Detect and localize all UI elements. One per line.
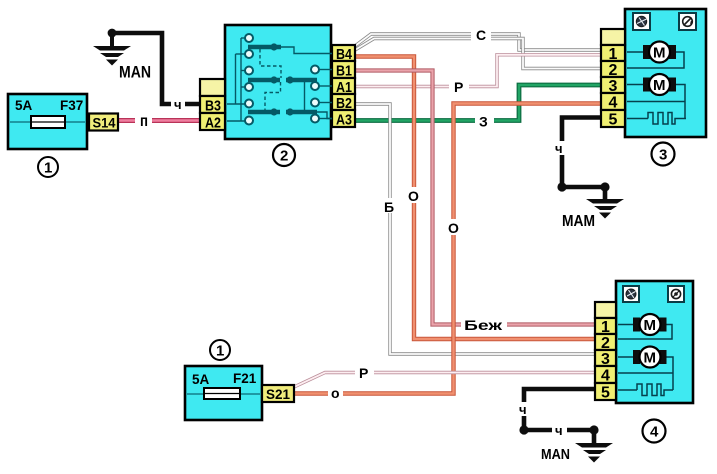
svg-text:5: 5 <box>601 385 610 402</box>
resistor square wave X4 <box>637 384 673 396</box>
ground MAN top-left <box>93 29 151 82</box>
wiper bar 1 <box>248 45 281 49</box>
svg-text:F21: F21 <box>233 371 257 386</box>
label O on B4 wire <box>405 187 423 204</box>
svg-text:M: M <box>653 77 666 94</box>
icon washer left X4 <box>623 286 639 302</box>
wire green Z (A3 to X3 pin3) <box>355 85 601 121</box>
pin (blank) left <box>200 79 225 96</box>
pin (blank) <box>595 302 616 318</box>
wire pin4 row <box>627 101 685 103</box>
icon washer left X3 <box>633 13 650 30</box>
switch internals <box>227 34 332 125</box>
wire M2 right drop X4 <box>666 357 673 390</box>
label ch on MAM wire <box>554 141 568 156</box>
svg-text:Б: Б <box>384 199 394 215</box>
wire black (MAN ground to B3) <box>112 33 200 104</box>
svg-text:5A: 5A <box>192 372 210 387</box>
wiper bar 2 right <box>286 78 317 82</box>
ground MAN bottom-right <box>519 425 613 463</box>
label P top <box>449 79 469 95</box>
fuse element F37 <box>31 116 65 128</box>
switch unit box <box>225 25 331 139</box>
callout 2 <box>273 144 295 166</box>
unit box X4 <box>616 281 693 403</box>
svg-text:о: о <box>331 385 340 401</box>
wire pin5 to resistor <box>627 118 648 120</box>
linkage dashed 1 <box>260 49 281 78</box>
wire internal left bus <box>240 38 242 121</box>
pin 3 <box>601 77 625 93</box>
label ch near B3 <box>171 97 185 112</box>
wire pin3 to M2 X4 <box>618 356 634 358</box>
fuse box F21 <box>185 366 262 420</box>
wire black (X3 pin5 to MAM ground) <box>562 118 605 200</box>
svg-text:1: 1 <box>44 160 52 177</box>
label O on S21 riser <box>445 219 463 236</box>
wire r2 stub to A1 <box>319 85 332 87</box>
svg-text:M: M <box>653 45 666 62</box>
svg-text:Р: Р <box>454 79 463 95</box>
svg-text:ч: ч <box>174 97 182 112</box>
motor M1 X4 <box>633 314 667 335</box>
wire orange O2 (S21 to X3 pin4) <box>293 104 601 394</box>
wire pin1 to M1 X4 <box>618 324 634 326</box>
wire r4 stub to A3 <box>319 118 332 120</box>
splice S21 <box>262 385 294 402</box>
svg-text:3: 3 <box>659 147 667 164</box>
pin 5 <box>601 110 625 127</box>
label C <box>471 27 491 43</box>
label Bezh <box>461 317 507 333</box>
wire r1 stub to B1 <box>319 69 332 71</box>
label B on white wire <box>382 198 398 215</box>
pin 3 <box>595 350 616 366</box>
wire pin1 to M1 <box>627 51 644 53</box>
pin (blank) <box>601 29 625 45</box>
linkage dashed 2 <box>265 82 281 110</box>
svg-text:Р: Р <box>359 365 368 381</box>
motor M1 X3 <box>643 42 676 63</box>
pin 2 <box>601 61 625 77</box>
svg-text:ч: ч <box>519 402 527 417</box>
fuse box F37 <box>8 94 87 149</box>
callout 1 (top fuse) <box>38 157 58 177</box>
resistor square wave X3 <box>648 113 686 125</box>
callout 4 <box>643 420 666 443</box>
svg-text:M: M <box>644 350 657 367</box>
contact circles right <box>311 66 319 74</box>
pin B2 <box>332 94 355 110</box>
pin A1 <box>332 78 355 94</box>
pin B3 <box>200 96 225 113</box>
callout 1 (bottom fuse) <box>210 340 230 360</box>
wire pin3 to M2 <box>627 84 644 86</box>
svg-text:A3: A3 <box>336 112 352 129</box>
svg-text:О: О <box>408 188 419 204</box>
pin B1 <box>332 61 355 78</box>
svg-text:A2: A2 <box>205 115 221 132</box>
label P bottom <box>355 365 374 381</box>
pin 5 <box>595 383 616 400</box>
wire M2 right drop <box>675 85 685 119</box>
wire pin4 row X4 <box>618 372 673 374</box>
svg-text:4: 4 <box>650 424 659 441</box>
wire pin5 to resistor X4 <box>618 389 637 391</box>
svg-text:п: п <box>140 113 148 130</box>
pin 4 <box>601 93 625 110</box>
svg-text:5A: 5A <box>15 98 33 113</box>
pin B4 <box>332 45 355 61</box>
wire M1 to pin2 <box>627 52 684 68</box>
wire M1 to pin2 X4 <box>618 325 672 340</box>
wire grey C2 (B4 to X3 pin2) <box>355 39 601 69</box>
svg-text:F37: F37 <box>60 98 83 113</box>
wire black (X4 pin5 to MAN ground) <box>524 389 595 443</box>
pin 1 <box>601 45 625 61</box>
label o near S21 <box>328 385 343 401</box>
callout 3 <box>652 143 675 166</box>
unit box X3 <box>625 9 706 137</box>
splice S14 <box>89 114 118 131</box>
svg-text:2: 2 <box>280 148 288 165</box>
wire pink p (S14 to A2) <box>118 118 200 123</box>
wire pink P top (A1 to X3 pin1) <box>355 55 601 87</box>
wiper bar 3 left <box>248 110 280 114</box>
wiper bar 3 right <box>286 110 317 114</box>
svg-text:MAN: MAN <box>119 63 151 82</box>
pin 2 <box>595 334 616 350</box>
svg-text:О: О <box>448 220 459 236</box>
svg-text:ч: ч <box>555 141 563 156</box>
contact circles left <box>245 34 253 42</box>
fuse element F21 <box>204 388 240 399</box>
wiper bar 2 left <box>248 78 280 82</box>
svg-text:С: С <box>476 27 486 43</box>
svg-text:MAM: MAM <box>562 213 595 230</box>
svg-text:ч: ч <box>555 423 563 438</box>
svg-text:S21: S21 <box>266 386 290 402</box>
pin 1 <box>595 318 616 334</box>
wire bar3 tail to A3 <box>317 112 332 119</box>
wire r3 stub to B2 <box>319 102 332 104</box>
wire beige Bezh (B1 to X4 pin1) <box>355 71 595 325</box>
svg-text:MAN: MAN <box>541 446 570 463</box>
svg-text:M: M <box>644 317 657 334</box>
svg-text:S14: S14 <box>93 115 116 131</box>
svg-text:1: 1 <box>216 343 224 360</box>
ground MAM right-middle <box>557 182 624 230</box>
pin A2 <box>200 113 225 130</box>
wire bar1 to B4 <box>281 47 332 54</box>
wire pink P bottom (S21 to X4 pin4) <box>294 373 595 388</box>
label p near S14 <box>135 113 152 130</box>
pin 4 <box>595 366 616 383</box>
label Z <box>475 113 494 130</box>
wire white B (B2 to X4 pin3) <box>355 104 595 354</box>
wire grey C (B4 to X3 pin1) <box>355 34 601 50</box>
pin A3 <box>332 110 355 127</box>
motor M2 X3 <box>643 74 676 95</box>
wire orange O (B4 to X4 pin2) <box>355 57 595 340</box>
svg-text:Беж: Беж <box>464 317 503 333</box>
icon washer right X4 <box>668 286 684 302</box>
svg-text:З: З <box>479 114 488 130</box>
motor M2 X4 <box>633 347 667 368</box>
label ch on MAN wire horizontal <box>552 423 567 438</box>
icon washer right X3 <box>679 13 696 30</box>
wire bar2-bar3 link <box>304 80 306 112</box>
svg-text:5: 5 <box>609 112 618 129</box>
label ch on MAN wire vertical <box>517 402 531 417</box>
